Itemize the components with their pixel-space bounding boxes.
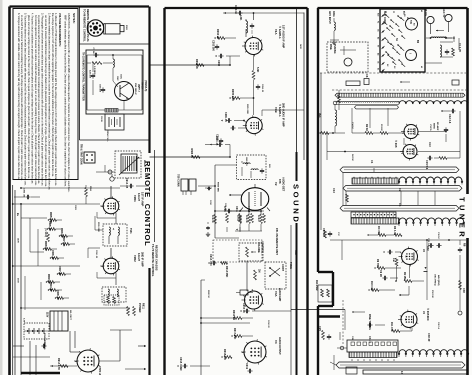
svg-text:CTP6 xD: CTP6 xD (98, 366, 100, 375)
left bus voltage labels (17, 238, 25, 323)
tube V1B 2nd sound if (243, 115, 264, 135)
turret strip 3 hatch bar (351, 218, 399, 224)
svg-text:½ 6U8: ½ 6U8 (394, 140, 398, 148)
relay K601 box (115, 151, 146, 178)
resistor R202 1M (214, 29, 236, 39)
cap C207 (216, 134, 224, 144)
svg-text:V1A: V1A (274, 29, 278, 36)
wire receiver to sound y65 (150, 64, 231, 66)
label V901 (133, 192, 145, 206)
rf grid resistors (352, 124, 404, 134)
turret strip 5 lower bar (363, 370, 467, 374)
resistor R11 15K (368, 281, 395, 291)
svg-text:AUDIO AMP: AUDIO AMP (278, 288, 281, 302)
turret strip 3 dashdot bar (351, 212, 396, 218)
label TUNER (457, 197, 466, 240)
power arrows (125, 345, 146, 370)
svg-text:(7V DC5): (7V DC5) (44, 228, 46, 237)
svg-text:H7: H7 (377, 45, 379, 47)
turret strip 2 hatch bar (352, 178, 398, 184)
label REMOTE CONTROL (143, 161, 152, 247)
ant coil L2 (335, 104, 337, 133)
resistor R12 15K (390, 322, 412, 332)
svg-text:R616 9M: R616 9M (232, 310, 235, 320)
strip5 left parts (330, 355, 357, 374)
svg-text:TUNING: TUNING (333, 44, 336, 54)
tone control box (265, 262, 292, 289)
cap C207b (230, 126, 246, 130)
svg-text:R202 1M: R202 1M (216, 29, 219, 39)
svg-text:P.B. ON REMOTE UNIT: P.B. ON REMOTE UNIT (275, 228, 278, 255)
receiver mid hline (20, 307, 130, 309)
label V902 (133, 252, 145, 267)
cap C619 .005 (245, 363, 253, 373)
tuner misc labels (337, 122, 439, 341)
svg-text:C1: C1 (370, 160, 374, 164)
svg-text:V2: V2 (274, 182, 278, 186)
test point TP1 (424, 9, 434, 34)
svg-text:R909 1K: R909 1K (47, 274, 49, 284)
left box right border lower segment (148, 268, 150, 375)
svg-text:R10 15K: R10 15K (370, 281, 373, 291)
wire sound right rail (262, 110, 304, 116)
uhf area stray wires (425, 36, 459, 63)
svg-text:8½: 8½ (402, 11, 406, 14)
svg-text:C618 .01MF: C618 .01MF (179, 357, 182, 371)
svg-text:2ND IF AMP: 2ND IF AMP (141, 252, 145, 267)
svg-text:C912 .05: C912 .05 (125, 178, 128, 189)
left lower components (318, 326, 331, 340)
svg-text:C604 .02: C604 .02 (261, 84, 264, 93)
svg-text:CONTROL: CONTROL (261, 241, 264, 254)
tuner mid verticals (321, 73, 460, 230)
rf cap C12b (418, 127, 448, 142)
transmitter bottom border (80, 139, 150, 141)
notes text box (13, 9, 78, 193)
label osc 6AF4 (422, 246, 428, 253)
svg-text:C26 5-6: C26 5-6 (437, 322, 439, 330)
resistor R617 45K (231, 328, 253, 339)
resistor R614 1M vert (254, 269, 261, 280)
capacitor C901 .05 (14, 188, 40, 199)
remote label thin rule (154, 150, 156, 242)
turret dashed boundary A (320, 72, 466, 74)
turret strip 2 capsule A (340, 160, 459, 173)
svg-text:E1: E1 (377, 68, 379, 70)
power trans label (13, 331, 80, 357)
label PB on remote (275, 228, 278, 255)
label SOUND rule lower (296, 223, 298, 375)
svg-text:1ST AUDIO IF AMP: 1ST AUDIO IF AMP (282, 25, 286, 48)
test point TP2 (442, 8, 452, 32)
svg-text:K10: K10 (377, 13, 379, 16)
svg-text:RF AMP: RF AMP (436, 122, 439, 131)
uhf dial lamp 2 (406, 50, 417, 61)
label TS-74 receiver small (151, 244, 158, 277)
svg-text:7S8 CONN: 7S8 CONN (177, 174, 180, 187)
turret strip 1 hatched capsule (335, 93, 465, 97)
label TO-96 REMOTE CONTROL (83, 9, 87, 42)
label osc freq adj (434, 274, 441, 286)
transistor Q1 (113, 81, 140, 110)
resistor R606 on y157 wire (190, 149, 200, 159)
svg-text:P601: P601 (125, 25, 127, 31)
tube V3A audio amp (242, 289, 264, 311)
svg-text:C201 1K: C201 1K (234, 5, 236, 15)
power transformer T903 (46, 311, 69, 331)
tube V2 6T8 det (240, 184, 270, 215)
wire gutter y157 (150, 156, 231, 158)
turret strip 5 capsule (336, 362, 465, 368)
svg-text:C6: C6 (365, 74, 369, 78)
resistor R904 column (85, 185, 92, 204)
osc grid cap (383, 250, 401, 254)
strip4 labels (368, 333, 431, 343)
wire into T602 and down (198, 165, 237, 238)
svg-text:C61 .05: C61 .05 (224, 203, 226, 211)
power resistor box (104, 295, 119, 305)
resistor R616 9M (201, 310, 253, 320)
strip1 small scallop band (336, 101, 399, 104)
label VR TK-15 (137, 80, 147, 91)
left box right border upper segment (148, 7, 150, 154)
svg-text:TR6 & TR67 CONN: TR6 & TR67 CONN (80, 144, 82, 165)
label V1B (274, 103, 286, 127)
osc bottom arrow (399, 286, 409, 296)
svg-text:C202 360: C202 360 (212, 40, 215, 51)
svg-text:R605 220K: R605 220K (246, 104, 248, 115)
svg-text:C203: C203 (217, 60, 220, 67)
svg-text:2N2 2955-P: 2N2 2955-P (134, 83, 136, 95)
capacitor C203 .4K (215, 54, 240, 67)
svg-text:C12 3-6: C12 3-6 (448, 114, 452, 124)
wire relay to plug (96, 165, 115, 174)
relay lower pin circle (110, 174, 114, 181)
volume control box (239, 241, 264, 261)
svg-text:SEL RECT: SEL RECT (69, 310, 71, 321)
uhf dial lamp 1 (406, 18, 418, 30)
svg-text:OSC: OSC (116, 76, 118, 81)
cap C615 1K (240, 303, 291, 313)
label V3A (274, 288, 281, 302)
svg-text:C3: C3 (398, 203, 402, 207)
svg-text:C15 5-6: C15 5-6 (425, 160, 429, 170)
svg-text:R908 1M: R908 1M (44, 241, 46, 251)
svg-text:R906 1K: R906 1K (60, 228, 62, 238)
resistor R1 3.3MEG (87, 62, 113, 75)
tuner section frame (317, 8, 468, 375)
svg-text:R617 45K: R617 45K (233, 328, 236, 339)
osc verticals (342, 240, 427, 300)
svg-text:C6 .05: C6 .05 (236, 215, 238, 222)
resistor R7 70K (374, 259, 401, 269)
receiver resistor ladder rows (43, 212, 76, 300)
svg-text:R9 70K: R9 70K (376, 259, 379, 268)
label TR6 TR67 CONN (80, 144, 82, 165)
tube V1A 1st sound if (242, 36, 263, 57)
svg-text:RECEIVER CHASSIS: RECEIVER CHASSIS (154, 245, 158, 271)
svg-text:C901 .05: C901 .05 (23, 188, 25, 198)
svg-text:C615 1K: C615 1K (242, 303, 245, 313)
svg-text:½ 6AW8-A: ½ 6AW8-A (278, 26, 282, 39)
svg-text:C9 30: C9 30 (100, 116, 102, 122)
det resistor cluster (223, 206, 265, 232)
label 6BN4 RF AMP (429, 122, 439, 131)
svg-text:ADJ (R24): ADJ (R24) (437, 275, 440, 286)
svg-text:A4: A4 (377, 53, 380, 55)
svg-text:300Ω: 300Ω (332, 11, 335, 17)
svg-text:B2: B2 (377, 37, 379, 39)
svg-text:V1 PG: V1 PG (429, 124, 431, 131)
svg-text:TO-96 REMOTE CONTROL: TO-96 REMOTE CONTROL (83, 9, 87, 42)
left misc labels (43, 205, 99, 347)
svg-text:R609 68K: R609 68K (217, 182, 219, 192)
uhf tuner box (380, 9, 425, 72)
left pre-osc labels (322, 228, 332, 238)
ant balun coil (330, 18, 339, 44)
label V903 rect (98, 366, 100, 375)
osc resistors on wire (367, 226, 402, 236)
svg-text:R601 1K: R601 1K (195, 59, 198, 69)
ratio detector T602 box (237, 155, 271, 180)
svg-text:FINE: FINE (329, 44, 332, 50)
svg-text:6.3V: 6.3V (23, 318, 25, 323)
quad coil L201 (239, 15, 254, 37)
svg-text:R6 470K: R6 470K (245, 215, 248, 223)
connector TS8 (84, 152, 95, 163)
left section frame (remote control box) (10, 7, 150, 375)
svg-text:R11 15K: R11 15K (390, 322, 393, 332)
svg-text:140V: 140V (17, 238, 20, 243)
svg-text:AUDIO OUTPUT: AUDIO OUTPUT (278, 337, 281, 355)
svg-text:10K: 10K (392, 258, 394, 262)
label SOUND (292, 184, 301, 224)
svg-text:45: 45 (420, 66, 423, 68)
receiver top wire 2 (20, 187, 120, 189)
svg-text:SOUND: SOUND (292, 184, 301, 224)
svg-text:CR901: CR901 (43, 340, 45, 347)
power wires bottom (13, 330, 132, 375)
svg-text:115V: 115V (46, 312, 48, 318)
svg-text:R620 1K: R620 1K (207, 290, 209, 298)
label V2 6T8 (274, 177, 286, 192)
resistor on y65 wire (195, 56, 231, 69)
B+ rail sound right (303, 13, 305, 161)
xmtr bottom contact row (105, 109, 118, 113)
cap C12 3-6 arrow (441, 109, 456, 124)
turret strip 3 capsule A (340, 203, 459, 211)
svg-text:UHF CONT: UHF CONT (383, 11, 386, 24)
resistor R205 2.2K (229, 89, 254, 115)
fine tuning label2 (368, 314, 371, 330)
det top wire (214, 210, 262, 212)
uhf pin rows (377, 13, 385, 72)
label V1A (274, 25, 286, 48)
rf amp tube V1t (401, 124, 419, 141)
svg-text:TK-15 REMOTE CONTROL TRANSMITT: TK-15 REMOTE CONTROL TRANSMITTER (82, 52, 85, 101)
mid misc labels (207, 44, 302, 328)
svg-text:C60 360: C60 360 (99, 84, 101, 93)
svg-text:C611: C611 (235, 206, 238, 212)
svg-text:R913 2.7K: R913 2.7K (57, 358, 60, 370)
uhf switch contacts texture (383, 14, 414, 68)
wire det to volume (215, 237, 239, 239)
osc diode (424, 267, 428, 271)
volume to V3A wire (246, 261, 248, 291)
svg-text:R6 47K: R6 47K (257, 215, 260, 222)
svg-text:F3: F3 (377, 21, 379, 23)
svg-text:6. Voltages associated with va: 6. Voltages associated with variable con… (17, 13, 20, 181)
IF transformer T902 box (102, 287, 126, 302)
cap C21 right (458, 240, 467, 262)
svg-text:½ 6AW8-A: ½ 6AW8-A (278, 104, 282, 117)
mixer caps row (425, 156, 460, 170)
resistor R20 vert (392, 258, 398, 281)
label V4 out (274, 337, 281, 355)
turret strip 2 arrows (353, 177, 397, 178)
svg-text:C30 40: C30 40 (427, 333, 431, 342)
svg-text:OSC FREQ: OSC FREQ (434, 274, 436, 286)
receiver step wires (12, 216, 103, 310)
small res R615 (236, 290, 253, 295)
svg-text:S2: S2 (386, 64, 388, 66)
svg-text:PLUG: PLUG (424, 9, 427, 16)
volume outer dashed box (213, 240, 262, 262)
mixer2 grid parts (345, 310, 385, 331)
svg-text:R9 15K: R9 15K (403, 272, 405, 280)
turret strip 4 scallops (398, 350, 469, 357)
svg-text:T901: T901 (129, 228, 132, 234)
uhf corner labels (385, 10, 423, 68)
tube V901 1st amp (97, 186, 120, 224)
turret strip 2 capsule B (343, 186, 462, 192)
remote plug P601 (104, 24, 127, 34)
svg-text:L201: L201 (239, 15, 242, 21)
osc tube V3t (399, 247, 419, 267)
svg-text:1ST IF AMP: 1ST IF AMP (141, 192, 145, 206)
svg-text:C613 .003: C613 .003 (209, 254, 212, 266)
pre-strip small parts (346, 74, 459, 86)
svg-text:VOLUME: VOLUME (257, 242, 260, 253)
bus wire B+ left (12, 185, 14, 375)
svg-text:6BN4: 6BN4 (433, 123, 436, 129)
strip1 big scallops (398, 101, 469, 104)
svg-text:C905 .05: C905 .05 (48, 221, 50, 231)
svg-text:C19 1K: C19 1K (437, 232, 439, 239)
transmitter top wire (87, 54, 142, 110)
strip 2-3 link wires (332, 173, 435, 205)
label ANT INPUT (328, 11, 335, 24)
svg-text:V3A: V3A (274, 291, 278, 298)
svg-text:C908 .05: C908 .05 (56, 290, 58, 300)
svg-text:V1B: V1B (274, 107, 278, 113)
svg-text:V902: V902 (133, 255, 137, 262)
svg-text:ANT. INPUT: ANT. INPUT (328, 11, 331, 24)
svg-text:C13: C13 (332, 188, 336, 193)
tuner right border lower (466, 238, 469, 375)
svg-text:C30: C30 (462, 288, 466, 293)
svg-text:AGC TP: AGC TP (442, 8, 445, 18)
svg-text:FINE TUNING: FINE TUNING (368, 314, 371, 330)
svg-text:POWER: POWER (138, 303, 141, 313)
label SOUND rule upper (296, 9, 298, 181)
svg-text:R205 2.2K: R205 2.2K (231, 89, 234, 101)
svg-text:R907 10K: R907 10K (62, 236, 64, 247)
svg-text:R911: R911 (142, 303, 145, 309)
sound top wire with C201 (223, 5, 304, 20)
cap C613 .003 and R613 (208, 254, 228, 277)
svg-text:5.6K: 5.6K (256, 67, 259, 72)
svg-text:S3: S3 (393, 66, 395, 68)
cap C618 .01MF (177, 357, 210, 371)
vhf ant input (318, 113, 345, 134)
strip1 to rf verticals (352, 108, 388, 133)
cap C606 .05 (205, 136, 230, 157)
strip1 lower thin capsule (355, 106, 399, 109)
svg-text:G5: G5 (377, 29, 379, 31)
selenium rectifier chain (24, 323, 49, 339)
svg-text:B2: B2 (409, 20, 411, 22)
svg-text:R8: R8 (463, 243, 467, 247)
svg-text:A10 360: A10 360 (89, 70, 92, 79)
svg-text:VHF: VHF (318, 113, 320, 118)
capacitor C1 1K (92, 48, 99, 58)
svg-text:C25: C25 (318, 326, 322, 331)
svg-text:NOTES:: NOTES: (72, 13, 76, 24)
cap C611 .05 on wire (224, 203, 232, 213)
svg-text:R606 1K: R606 1K (190, 149, 193, 159)
svg-text:6T8: 6T8 (278, 179, 282, 184)
audio coupling wires (200, 280, 250, 375)
svg-text:2ND AUDIO IF AMP: 2ND AUDIO IF AMP (282, 103, 286, 127)
svg-text:C616 20: C616 20 (267, 320, 269, 328)
tube V902 2nd amp (97, 248, 120, 285)
svg-text:C13: C13 (428, 142, 431, 147)
svg-text:R60 360: R60 360 (245, 158, 247, 167)
svg-text:B1: B1 (406, 17, 408, 19)
right rail lower sound (290, 225, 292, 375)
receiver top wire (12, 203, 100, 205)
resistor R204 5.6K vert (252, 55, 259, 80)
svg-text:½ 6U8 MIX: ½ 6U8 MIX (426, 308, 430, 321)
trap circuit L16 (440, 42, 461, 57)
svg-text:V901: V901 (133, 195, 137, 202)
gutter crossing wire y309 (291, 309, 345, 311)
svg-text:C14 1K: C14 1K (351, 122, 354, 129)
svg-text:R910 4K: R910 4K (49, 282, 52, 292)
tuner right border upper (466, 8, 469, 194)
svg-text:C6: C6 (377, 61, 379, 63)
svg-text:C9 2K: C9 2K (379, 270, 382, 277)
svg-text:R2 1K: R2 1K (365, 124, 369, 131)
svg-text:R915 220K: R915 220K (97, 222, 99, 233)
osc right rail (458, 262, 466, 315)
cap C22 2K (379, 270, 398, 280)
mixer2 tube V4t (398, 310, 418, 330)
svg-text:TR-1: TR-1 (138, 87, 140, 93)
osc top wire (330, 239, 466, 241)
svg-text:R6 470K: R6 470K (211, 215, 214, 223)
svg-text:1M: 1M (258, 269, 261, 272)
svg-text:43: 43 (420, 10, 423, 12)
turret strip 4 hatch bar (349, 352, 397, 361)
mixer tube V2t (400, 144, 418, 161)
cap C206 .05 (221, 112, 245, 123)
svg-text:V4: V4 (274, 340, 278, 344)
svg-text:RELAY: RELAY (143, 160, 146, 168)
label V4t (422, 308, 430, 321)
svg-text:B3: B3 (413, 23, 415, 25)
